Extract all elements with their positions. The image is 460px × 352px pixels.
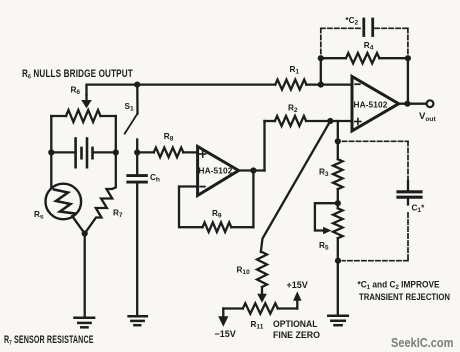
svg-text:R6 NULLS BRIDGE OUTPUT: R6 NULLS BRIDGE OUTPUT: [22, 68, 133, 81]
resistor R11: [243, 303, 278, 313]
terminal Vout: [427, 100, 434, 107]
svg-text:HA-5102: HA-5102: [354, 100, 388, 110]
wire top node (R6 wiper / S1 / R1): [87, 85, 276, 95]
wire R11 right lead: [278, 307, 298, 309]
sensor RS circle: [46, 184, 82, 220]
wire R5 wiper loop: [315, 203, 338, 230]
op-amp U2 triangle: [352, 77, 399, 131]
node S1 top: [134, 82, 140, 88]
resistor R1: [275, 80, 306, 90]
node R2 / R3 / wiper feed: [327, 118, 333, 124]
svg-text:HA-5102: HA-5102: [199, 166, 233, 176]
node C1 dashed bottom: [335, 258, 341, 264]
resistor R4: [346, 53, 380, 63]
wire R8 to op-amp U1 plus input: [183, 151, 197, 153]
resistor R8: [154, 148, 184, 158]
battery B1 plates: [76, 139, 93, 168]
wire diagonal to R10: [261, 121, 331, 252]
capacitor Ch plates: [128, 176, 147, 183]
resistor R4 row right wire: [379, 57, 408, 59]
wire bottom node to ground: [84, 234, 86, 317]
wire R2 left lead: [265, 120, 275, 122]
capacitor C1 leads: [407, 181, 409, 190]
capacitor C1 dashed connections: [343, 141, 409, 260]
op-amp U2 minus sign: [355, 83, 360, 85]
resistor R10: [257, 252, 267, 287]
op-amp U2 plus sign: [355, 119, 361, 125]
wire R2 to op-amp U2 plus input: [306, 120, 352, 122]
op-amp U1 output wire: [239, 169, 265, 171]
capacitor C2 dashed connections: [321, 28, 408, 56]
wiper arrow R5: [323, 227, 331, 235]
svg-text:R7 SENSOR RESISTANCE: R7 SENSOR RESISTANCE: [4, 333, 94, 346]
wire R4 right leg to output: [407, 58, 409, 103]
capacitor Ch bottom lead: [136, 183, 138, 315]
wire R11 left lead: [223, 307, 243, 309]
capacitor Ch top lead: [136, 152, 138, 174]
svg-text:SeekIC.com: SeekIC.com: [391, 335, 453, 350]
wire bridge right vertical: [115, 116, 117, 155]
resistor R3: [333, 159, 343, 189]
wire R8 left lead: [137, 151, 154, 153]
op-amp U2 output wire: [399, 103, 427, 105]
wiper arrow R10 onto R11: [261, 287, 263, 295]
wire R4 left leg: [320, 58, 322, 84]
node R4 left: [318, 55, 324, 61]
capacitor C2 plates: [364, 19, 373, 36]
resistor R4 row left wire: [321, 57, 346, 59]
ground (R5): [328, 316, 348, 326]
wire feedback bottom left: [179, 187, 203, 228]
wire R3 top lead: [337, 121, 339, 159]
wire R1 to op-amp U2 minus input: [306, 83, 352, 85]
wire R6 left lead: [51, 115, 66, 117]
wire feedback bottom right: [231, 226, 253, 228]
resistor R7 (diagonal): [85, 152, 116, 233]
wire R3-R5 link: [337, 189, 339, 208]
wire U1 output riser to R2: [263, 121, 265, 171]
node R3/R5 wiper tap: [335, 200, 341, 206]
node bridge left: [48, 149, 54, 155]
svg-text:TRANSIENT REJECTION: TRANSIENT REJECTION: [359, 291, 450, 302]
node S1 bottom / R8 / Ch: [134, 149, 140, 155]
wire bridge left vertical: [50, 116, 52, 188]
battery B1 right wire: [94, 151, 116, 153]
sensor RS element zigzag: [54, 190, 75, 214]
wire U1 feedback drop: [252, 171, 254, 228]
op-amp U1 plus sign: [200, 151, 206, 157]
ground (bridge): [75, 318, 95, 328]
node bridge right: [113, 149, 119, 155]
switch S1 pole wire: [136, 86, 138, 114]
op-amp U1 minus sign: [200, 186, 205, 188]
wire RS to bottom node: [72, 216, 85, 233]
resistor R9: [203, 222, 232, 232]
node C1 dashed top: [335, 138, 341, 144]
svg-text:FINE ZERO: FINE ZERO: [273, 330, 320, 340]
battery B1 left wire: [51, 151, 74, 153]
node U1 output: [250, 167, 256, 173]
node R1/C2 junction: [318, 82, 324, 88]
node U2 output: [404, 101, 410, 107]
op-amp U1 triangle: [198, 147, 239, 196]
svg-text:+15V: +15V: [287, 280, 308, 290]
wire R5 bottom to ground: [337, 238, 339, 315]
potentiometer R6 wiper arrow: [85, 95, 87, 102]
wire R6 right lead: [101, 115, 116, 117]
resistor R6 body: [66, 110, 101, 122]
svg-text:OPTIONAL: OPTIONAL: [273, 319, 318, 329]
arrow -15V: [222, 309, 224, 318]
ground (Ch): [129, 316, 147, 325]
switch S1 throw stub: [136, 140, 138, 153]
node bridge bottom: [82, 230, 88, 236]
resistor R2: [275, 116, 306, 126]
svg-text:−15V: −15V: [215, 329, 236, 339]
node R4 right: [405, 55, 411, 61]
capacitor C1 plates: [398, 192, 421, 197]
switch S1 blade: [125, 114, 138, 134]
svg-text:*C1 and C2 IMPROVE: *C1 and C2 IMPROVE: [358, 279, 440, 291]
resistor R5: [333, 208, 343, 238]
arrow +15V: [296, 300, 298, 309]
